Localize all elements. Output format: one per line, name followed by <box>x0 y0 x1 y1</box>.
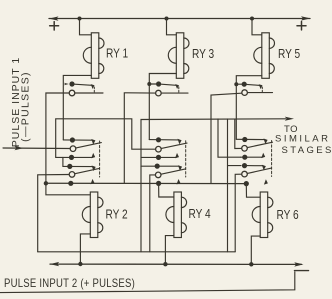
contact circle RY5 set1 <box>242 90 248 96</box>
wire set3 circle mid to lower common <box>150 175 155 252</box>
relay coil RY3 <box>168 33 189 79</box>
linkage dashes set2-set3 left <box>99 141 101 177</box>
blade tip arrow down set2 left <box>91 139 95 145</box>
contact dot RY1 set1 <box>69 81 74 86</box>
wire set3 circle right to lower common <box>235 174 241 252</box>
pulse input 1 line <box>3 147 70 150</box>
contact dot set2 top mid <box>156 137 161 142</box>
wire RY6 coil bottom to pulse bus <box>251 236 260 264</box>
set2 mid: top contact wire <box>149 139 178 141</box>
blade tip arrow down set2 right <box>264 139 268 145</box>
top bus right arrowhead <box>301 16 311 20</box>
stub set2 bottom to set3 top left <box>62 157 64 166</box>
relay coil RY1 <box>83 33 104 79</box>
svg-text:RY 3: RY 3 <box>192 47 214 61</box>
wire bus to RY3 coil <box>167 19 177 35</box>
contact dot set3 top mid <box>155 164 160 169</box>
blade tip arrow down set1 right <box>259 84 263 89</box>
contact dot set2 top right <box>242 137 247 142</box>
set2 mid bottom contact wire <box>141 156 176 158</box>
contact circle set3 left <box>69 172 75 178</box>
minus terminal mark <box>295 270 309 272</box>
contact dot RY5 set1 <box>242 82 247 87</box>
contact dot set3 bottom left <box>68 181 73 186</box>
relay coil RY6 <box>252 192 273 238</box>
top bus left arrowhead <box>49 16 59 20</box>
blade RY3 set1 <box>161 84 176 85</box>
contact circle set2 mid <box>156 146 162 152</box>
svg-text:STAGES: STAGES <box>282 145 332 156</box>
blade tip arrow up set3 mid <box>177 179 181 184</box>
blade tip arrow down set3 right <box>262 165 266 171</box>
linkage dashes set2-set3 right <box>271 141 273 177</box>
node: RY5 tap on bus <box>250 17 254 21</box>
linkage dashes set2-set3 mid <box>185 141 187 177</box>
blade tip arrow down set3 left <box>92 166 96 172</box>
blade tip arrow up set3 right <box>264 179 268 184</box>
svg-text:(—PULSES): (—PULSES) <box>20 71 32 142</box>
pulse bus right arrowhead <box>294 262 303 266</box>
svg-text:SIMILAR: SIMILAR <box>275 134 331 145</box>
contact dot set2 bottom left <box>69 155 74 160</box>
set2 right: top contact wire <box>236 138 264 140</box>
wire set3 bottom mid to RY4 coil <box>159 183 174 197</box>
blade from circle set3 left <box>75 168 99 173</box>
contact dot set2 top left <box>70 137 75 142</box>
interstage link wire to similar stages <box>141 119 286 166</box>
blade tip arrow up set2 mid <box>175 153 179 158</box>
wire set3 circle left to lower common <box>38 175 69 252</box>
wire RY1 coil bottom down to contact rail <box>63 75 91 139</box>
relay coil RY5 <box>254 33 275 79</box>
minus terminal lead under caption <box>0 272 295 293</box>
relay coil RY4 <box>166 192 187 238</box>
wire RY3 coil bottom down to contact rail <box>149 74 176 140</box>
node RY5 rail at set1 <box>234 82 238 86</box>
blade tip arrow down set1 mid <box>175 84 179 89</box>
wire set1 mid circle down to common line <box>124 93 155 184</box>
node: RY1 tap on bus <box>78 17 82 21</box>
linkage dashes set1 left <box>93 87 95 92</box>
contact circle set3 mid <box>155 172 161 178</box>
pulse input 2 bus <box>50 263 302 265</box>
wire bus to RY5 coil <box>252 19 262 35</box>
node on rail to RY2 <box>44 181 48 185</box>
wire RY2 coil bottom to pulse bus <box>80 234 90 264</box>
contact dot set2 bottom right <box>242 155 247 160</box>
top + supply bus <box>49 18 310 20</box>
wire rail to contact dot set1 right <box>236 83 241 85</box>
wire set1 circle to RY2 coil top <box>46 93 90 195</box>
node RY6 drop on bus <box>249 262 253 266</box>
blade from circle set2 left <box>76 143 101 148</box>
set2 left bottom contact wire <box>56 156 93 158</box>
svg-text:RY 6: RY 6 <box>277 208 299 222</box>
contact circle set2 right <box>242 146 248 152</box>
plus label right <box>297 22 306 30</box>
node RY2 drop on bus <box>78 262 82 266</box>
to-similar-stages arrowhead <box>285 117 294 121</box>
wire link down to right set2 circle <box>235 119 242 148</box>
svg-text:RY 5: RY 5 <box>278 47 300 61</box>
common line through set3 bottom contacts <box>46 182 247 184</box>
wire rail to contact dot set1 mid <box>149 83 156 85</box>
linkage dashes set1 right <box>261 87 263 92</box>
contact dot set2 bottom mid <box>156 155 161 160</box>
contact dot set3 top left <box>67 164 72 169</box>
blade tip arrow up set3 left <box>91 179 95 184</box>
wire right set3 top contact feed <box>228 165 242 167</box>
svg-text:RY 4: RY 4 <box>189 207 212 221</box>
linkage dashes set1 mid <box>178 87 180 92</box>
svg-text:RY 1: RY 1 <box>106 46 128 60</box>
svg-text:RY 2: RY 2 <box>106 207 128 221</box>
pulse input 1 arrowhead <box>15 146 24 150</box>
wire link down to right set2 bottom contact <box>218 119 241 157</box>
blade line from circle set1 mid <box>162 92 189 94</box>
wire bus to RY1 coil <box>80 19 92 35</box>
contact dot RY3 set1 <box>156 81 161 86</box>
blade tip arrow down set1 left <box>91 84 95 89</box>
set2 right bottom contact wire <box>241 156 263 158</box>
wire set3 bottom right to RY6 coil <box>246 184 260 198</box>
contact dot set3 top right <box>242 163 247 168</box>
wire mid rail down to lower common <box>140 166 142 252</box>
svg-text:PULSE INPUT 2 (+ PULSES): PULSE INPUT 2 (+ PULSES) <box>4 277 135 290</box>
blade tip arrow down set3 mid <box>178 165 182 171</box>
contact circle RY3 set1 <box>156 90 162 96</box>
lower common return wire <box>38 251 236 253</box>
set3 right top blade <box>247 165 263 167</box>
relay coil RY2 <box>82 192 103 238</box>
wire RY4 coil bottom to pulse bus <box>165 236 174 265</box>
blade RY5 set1 <box>247 84 260 85</box>
plus label left <box>50 22 59 30</box>
blade line from circle set1 right <box>248 92 273 94</box>
contact circle set2 left <box>70 146 76 152</box>
pulse bus left arrowhead <box>50 262 59 266</box>
interstage link wire left (y 118.8) <box>56 119 156 158</box>
blade line from circle set1 left <box>75 92 103 94</box>
set3 left top contact wire <box>63 165 93 167</box>
contact circle RY1 set1 (normally open) <box>69 90 75 96</box>
blade tip arrow down set2 mid <box>178 139 182 145</box>
contact circle set3 right <box>242 171 248 177</box>
blade from circle set2 mid <box>161 143 187 148</box>
node RY3 rail at set1 <box>147 82 151 86</box>
wire set1 right circle down to common line <box>211 93 242 183</box>
blade tip arrow up set2 left <box>91 153 95 158</box>
set3 mid top contact wire <box>141 165 179 167</box>
set2 left: top contact wire <box>63 139 92 141</box>
node RY4 drop on bus <box>163 262 167 266</box>
blade from circle set3 right <box>247 168 271 173</box>
blade tip arrow up set2 right <box>261 153 265 158</box>
pivot arrow RY1 upper contact <box>64 83 69 86</box>
blade from circle set3 mid <box>161 169 185 174</box>
node: RY3 tap on bus <box>165 17 169 21</box>
wire link down to right set3 top contact <box>227 119 229 252</box>
contact dot set3 bottom right <box>244 181 249 186</box>
wire RY5 coil bottom down to contact rail <box>236 76 261 140</box>
blade from circle set2 right <box>248 142 273 147</box>
contact dot set3 bottom mid <box>156 181 161 186</box>
blade RY1 set1 <box>75 84 92 85</box>
